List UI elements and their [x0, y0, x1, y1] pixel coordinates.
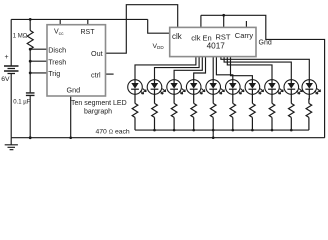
svg-text:clk: clk: [172, 32, 182, 41]
node dot resistor R3 on LED rail: [153, 129, 156, 132]
LED D1: [128, 80, 147, 95]
svg-text:470 Ω each: 470 Ω each: [96, 129, 130, 136]
wire En+RST to ground net: [201, 15, 325, 137]
LED D8: [265, 80, 284, 95]
wire LED1 cathode to resistor: [134, 94, 136, 103]
wire resistor R6 to LED rail: [212, 117, 214, 130]
wire +6V top rail: [11, 18, 148, 20]
wire output Q to LED4: [194, 57, 206, 80]
resistor R3 470 ohm: [152, 103, 158, 117]
resistor R1 1 MΩ: [27, 31, 33, 50]
node dot at Tresh tap: [29, 60, 32, 63]
svg-text:VDD: VDD: [153, 43, 165, 50]
wire 555 RST pin: [87, 19, 89, 24]
wire LED8 cathode to resistor: [271, 94, 273, 103]
wire output Q to LED5: [212, 57, 214, 80]
LED D10: [302, 80, 321, 95]
wire resistor R8 to LED rail: [251, 117, 253, 130]
wire 555 Gnd pin to rail: [70, 96, 72, 138]
LED D6: [226, 80, 245, 95]
LED D3: [167, 80, 186, 95]
wire 555 Vcc pin: [59, 19, 61, 24]
IC U1 555 timer box: [47, 25, 106, 96]
wire resistor R5 to LED rail: [193, 117, 195, 130]
wire 4017 Carry stub: [245, 21, 247, 27]
wire Trig pin lead: [30, 72, 47, 74]
svg-text:RST: RST: [81, 29, 96, 36]
node dot resistor R10 on LED rail: [290, 129, 293, 132]
wire LED2 cathode to resistor: [154, 94, 156, 103]
svg-text:RST: RST: [216, 33, 231, 42]
wire output Q to LED7: [231, 57, 253, 80]
resistor R6 470 ohm: [210, 103, 216, 117]
node dot at Trig tap: [29, 72, 32, 75]
LED D9: [284, 80, 303, 95]
wire resistor R2 to LED rail: [134, 117, 136, 130]
LED D2: [147, 80, 166, 95]
resistor R10 470 ohm: [288, 103, 294, 117]
svg-text:Out: Out: [91, 49, 103, 58]
node dot 555 gnd at rail: [69, 136, 72, 139]
wire resistor R10 to LED rail: [290, 117, 292, 130]
wire resistor top lead: [29, 19, 31, 30]
battery B1 6V plates: [4, 66, 19, 71]
wire bottom ground rail: [11, 137, 325, 139]
svg-text:4017: 4017: [207, 42, 226, 51]
wire VDD feed to 4017: [148, 19, 170, 33]
svg-text:ctrl: ctrl: [91, 70, 101, 79]
wire output Q to LED3: [174, 57, 202, 80]
ground symbol: [5, 138, 18, 150]
wire 4017 clk En pin: [200, 15, 202, 27]
svg-text:Disch: Disch: [48, 45, 66, 54]
LED D5: [206, 80, 225, 95]
wire output Q to LED1: [135, 57, 196, 80]
node dot resistor R4 on LED rail: [173, 129, 176, 132]
wire battery negative lead: [10, 74, 12, 138]
wire Disch pin lead: [30, 48, 47, 50]
wire resistor R3 to LED rail: [154, 117, 156, 130]
node dot resistor R8 on LED rail: [251, 129, 254, 132]
wire LED rail to ground rail: [212, 130, 214, 138]
wire LED cathode rail: [135, 129, 309, 131]
svg-text:Gnd: Gnd: [67, 85, 81, 94]
svg-text:6V: 6V: [1, 76, 10, 83]
wire output Q to LED2: [155, 57, 200, 80]
wire LED10 cathode to resistor: [308, 94, 310, 103]
LED D7: [245, 80, 264, 95]
svg-text:bargraph: bargraph: [84, 109, 112, 116]
wire 555 Out to 4017 clk: [106, 5, 178, 54]
wire resistor R11 to LED rail: [308, 117, 310, 130]
LED D4: [186, 80, 205, 95]
resistor R8 470 ohm: [250, 103, 256, 117]
node dot cap to ground rail: [29, 136, 32, 139]
svg-text:+: +: [5, 54, 9, 61]
wire output Q to LED8: [227, 57, 272, 80]
resistor R5 470 ohm: [191, 103, 197, 117]
resistor R4 470 ohm: [171, 103, 177, 117]
wire resistor R7 to LED rail: [232, 117, 234, 130]
svg-text:Trig: Trig: [48, 69, 60, 78]
svg-text:Carry: Carry: [235, 31, 254, 40]
node dot rail connector: [212, 136, 215, 139]
svg-text:Ten segment LED: Ten segment LED: [71, 100, 127, 107]
resistor R11 470 ohm: [306, 103, 312, 117]
wire output Q to LED10: [221, 57, 309, 80]
svg-text:Gnd: Gnd: [259, 40, 272, 47]
capacitor C1 0.1 µF plates: [26, 93, 35, 96]
wire LED5 cathode to resistor: [212, 94, 214, 103]
node dot resistor R9 on LED rail: [271, 129, 274, 132]
resistor R2 470 ohm: [132, 103, 138, 117]
wire output Q to LED6: [216, 57, 232, 80]
resistor R9 470 ohm: [269, 103, 275, 117]
wire battery positive lead: [10, 19, 12, 65]
wire timing node vertical (disch/tresh/trig to cap): [29, 49, 31, 92]
node dot resistor R6 on LED rail: [212, 129, 215, 132]
node dot at Disch tap: [29, 48, 32, 51]
node dot RST/En tie: [222, 14, 225, 17]
wire capacitor bottom lead: [29, 95, 31, 137]
wire LED9 cathode to resistor: [290, 94, 292, 103]
svg-text:Tresh: Tresh: [48, 57, 66, 66]
node junction dot at resistor top: [29, 18, 32, 21]
IC U2 4017 decade counter box: [170, 27, 256, 56]
wire LED3 cathode to resistor: [173, 94, 175, 103]
svg-text:0.1 µF: 0.1 µF: [13, 100, 30, 106]
resistor R7 470 ohm: [230, 103, 236, 117]
svg-text:1 MΩ: 1 MΩ: [13, 33, 28, 39]
wire 555 ctrl stub: [106, 73, 114, 75]
wire resistor R9 to LED rail: [271, 117, 273, 130]
wire LED4 cathode to resistor: [193, 94, 195, 103]
wire resistor R4 to LED rail: [173, 117, 175, 130]
wire Tresh pin lead: [30, 60, 47, 62]
node dot resistor R5 on LED rail: [192, 129, 195, 132]
node dot resistor R7 on LED rail: [232, 129, 235, 132]
wire LED6 cathode to resistor: [232, 94, 234, 103]
wire LED7 cathode to resistor: [251, 94, 253, 103]
wire output Q to LED9: [224, 57, 291, 80]
wire 4017 RST pin: [223, 15, 225, 27]
